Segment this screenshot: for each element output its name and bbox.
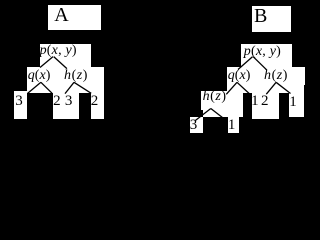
wire h-3 A: [65, 82, 74, 93]
leaf 3 A: [15, 93, 23, 110]
leaf box 2,3 (middle) A: [53, 93, 79, 119]
wire band below q/h A: [27, 85, 91, 93]
wire q-hlow B: [226, 82, 237, 94]
node q/h band A: [27, 67, 104, 85]
wire hlow-1 B: [211, 109, 227, 122]
leaf 1 B: [251, 93, 259, 110]
wire p-h A: [54, 57, 67, 69]
wire q-2 A: [41, 82, 52, 93]
node p(x,y) band A: [40, 44, 91, 67]
wire p-h B: [253, 57, 266, 70]
node A frame box: [48, 5, 101, 30]
wire p-q A: [40, 57, 53, 68]
label q(x) A: [28, 68, 51, 84]
leaf 1 right B: [289, 94, 297, 111]
label q(x) B: [228, 68, 251, 84]
leaf box 2 (right col) A: [91, 85, 104, 119]
wire band below q/h B: [227, 85, 288, 93]
wire h-2 A: [74, 82, 91, 93]
label A: [54, 4, 68, 27]
label h(z) lower B: [203, 89, 227, 105]
wire p-q B: [238, 57, 253, 70]
leaf box 1 (bottom) B: [228, 117, 239, 133]
node q/h band B: [227, 67, 305, 85]
leaf 3 bottom B: [190, 117, 198, 134]
leaf 2 B: [261, 93, 269, 110]
node p(x,y) band B: [241, 44, 292, 67]
leaf box 3 (first) A: [14, 91, 27, 119]
wire q-1 B: [237, 82, 249, 93]
leaf box 1 (right col) B: [289, 85, 305, 117]
label B: [254, 5, 267, 28]
node B frame box: [252, 6, 291, 32]
wire q-3 A: [28, 82, 41, 93]
black step notch left of h(z) lower wire band B: [201, 110, 203, 117]
label p(x,y) B: [244, 44, 281, 60]
wire h-2 B: [266, 82, 276, 94]
node h(z) lower box B: [201, 91, 243, 117]
leaf box 1,2 (middle) B: [252, 93, 279, 119]
leaf box 3 (bottom) B: [190, 117, 203, 133]
leaf 1 bottom B: [228, 117, 236, 134]
label h(z) B: [264, 68, 288, 84]
leaf 3b A: [65, 93, 73, 110]
leaf 2 A: [53, 93, 61, 110]
label p(x,y) A: [40, 43, 77, 59]
label h(z) A: [64, 68, 88, 84]
wire h-1 B: [276, 82, 290, 93]
leaf 2b A: [91, 93, 99, 110]
wire hlow-3 B: [196, 109, 211, 121]
